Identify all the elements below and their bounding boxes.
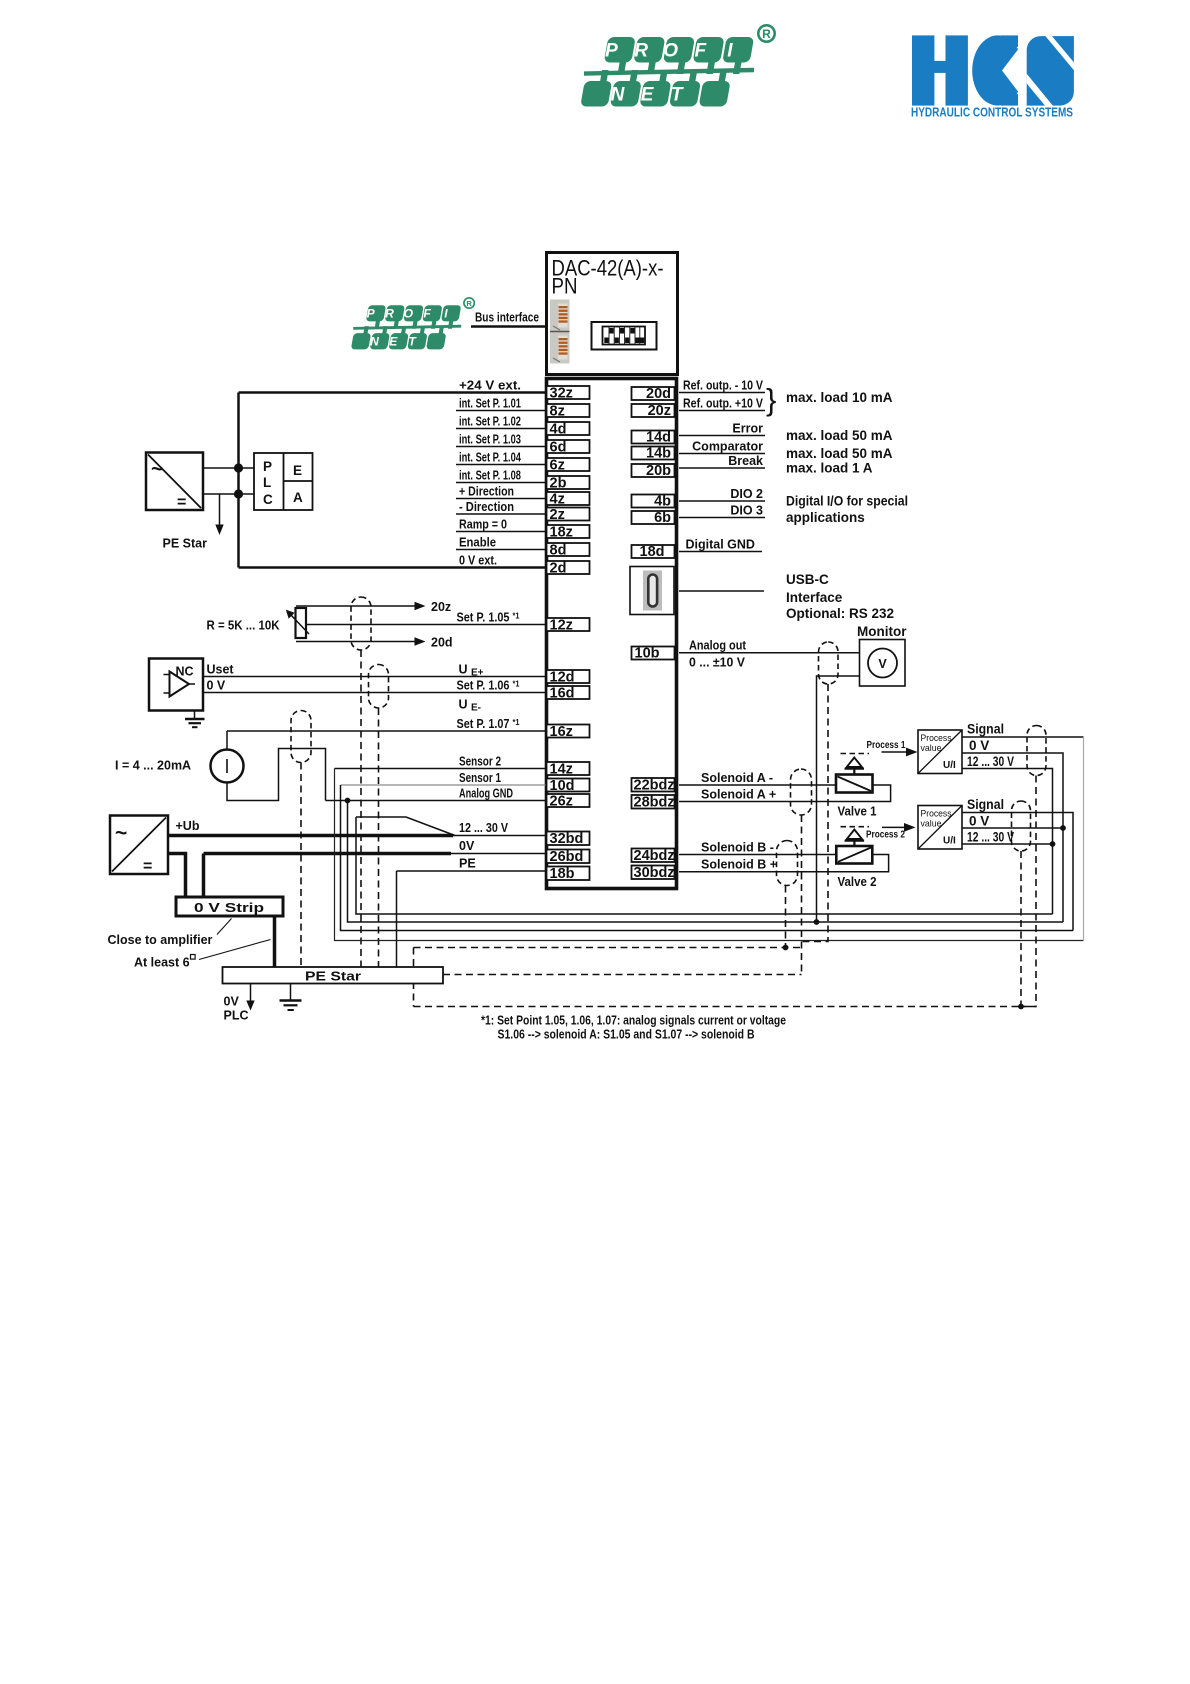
- wire signal 1 return riser (hairline): [1083, 737, 1085, 941]
- shield drain bus A: [414, 947, 802, 949]
- current source I1: [211, 750, 244, 783]
- svg-text:2b: 2b: [550, 476, 567, 492]
- pin 12z row: label Set P. 1.05: [306, 610, 590, 633]
- PE Star arrow (top): [163, 494, 224, 551]
- svg-text:16d: 16d: [550, 686, 575, 702]
- svg-text:20z: 20z: [648, 403, 671, 419]
- pin 20b row: label Break: [632, 454, 873, 479]
- wire sensor supply tap (diagonal): [356, 817, 455, 836]
- wire 0V riser to strip: [202, 854, 206, 898]
- svg-text:20z: 20z: [431, 600, 451, 614]
- svg-text:PE Star: PE Star: [163, 537, 208, 551]
- svg-text:Valve 1: Valve 1: [838, 805, 877, 819]
- wire pot top to 20z arrow: [296, 600, 451, 614]
- svg-text:Solenoid A +: Solenoid A +: [701, 787, 776, 801]
- svg-text:32bd: 32bd: [550, 831, 584, 847]
- pin 24bdz row: label Solenoid B -: [632, 840, 837, 864]
- svg-text:Solenoid B +: Solenoid B +: [701, 858, 777, 872]
- power supply AC/DC converter (top): [146, 453, 203, 512]
- cable shield (monitor): [819, 642, 839, 684]
- wire USB-C interface: [679, 590, 764, 592]
- svg-text:Enable: Enable: [459, 535, 496, 549]
- svg-text:0V: 0V: [224, 995, 240, 1009]
- wire PE riser to PE Star: [396, 871, 398, 967]
- svg-text:0 V: 0 V: [969, 813, 989, 828]
- cable shield (process 1): [1027, 726, 1046, 776]
- pin 10d row: label Sensor 1: [341, 771, 590, 794]
- pin 28bdz row: label Solenoid A +: [632, 785, 891, 811]
- pin 4b row: label DIO 2: [632, 487, 909, 510]
- svg-text:USB-C: USB-C: [786, 572, 829, 587]
- wire PSU to PLC (upper): [203, 467, 254, 469]
- svg-text:18d: 18d: [640, 544, 665, 560]
- svg-text:int. Set P. 1.03: int. Set P. 1.03: [459, 432, 521, 446]
- wire bus interface: [471, 325, 546, 328]
- junction node drain C: [1018, 1004, 1024, 1010]
- svg-text:L: L: [263, 475, 271, 490]
- USB-C port connector: [630, 567, 674, 615]
- svg-text:0 ... ±10 V: 0 ... ±10 V: [689, 656, 746, 670]
- svg-text:max. load 50 mA: max. load 50 mA: [786, 446, 893, 461]
- PROFINET logo (bus interface): [351, 298, 474, 350]
- label At least 6 square: [134, 940, 271, 970]
- svg-text:18z: 18z: [550, 525, 573, 541]
- pin 20d row: label Ref. outp. - 10 V: [632, 378, 766, 402]
- svg-text:Signal: Signal: [967, 722, 1004, 737]
- svg-text:Ref. outp. +10 V: Ref. outp. +10 V: [683, 396, 764, 410]
- pin 14b row: label Comparator: [632, 439, 893, 461]
- pin 26z row: label Analog GND: [326, 786, 590, 809]
- label Process 1 with arrow: [867, 740, 918, 756]
- svg-text:int. Set P. 1.08: int. Set P. 1.08: [459, 468, 521, 482]
- svg-text:Process 1: Process 1: [867, 740, 906, 751]
- shield drain wire (valve 2): [785, 886, 787, 948]
- svg-text:V: V: [878, 657, 887, 671]
- wire +24V ext vertical riser: [237, 393, 240, 568]
- svg-text:int. Set P. 1.02: int. Set P. 1.02: [459, 414, 521, 428]
- svg-text:value: value: [921, 819, 942, 830]
- cable shield (Uset): [369, 665, 389, 709]
- label Process 2 with arrow: [866, 823, 916, 841]
- svg-text:=: =: [177, 494, 186, 511]
- svg-text:Ramp = 0: Ramp = 0: [459, 517, 507, 531]
- wire monitor return to 0V bus: [817, 676, 860, 922]
- svg-text:*1: Set Point 1.05, 1.06, 1.07: *1: Set Point 1.05, 1.06, 1.07: analog s…: [481, 1014, 786, 1028]
- svg-text:max. load 50 mA: max. load 50 mA: [786, 428, 893, 443]
- pin 12d: [547, 670, 590, 686]
- svg-text:PE Star: PE Star: [305, 970, 361, 984]
- svg-text:Set P. 1.05 *1: Set P. 1.05 *1: [457, 610, 520, 624]
- HCS logo: [911, 35, 1074, 120]
- svg-text:Sensor 2: Sensor 2: [459, 754, 501, 768]
- svg-text:10d: 10d: [550, 778, 575, 794]
- process pickup dashes (valve 1): [841, 753, 870, 755]
- svg-text:12 ... 30 V: 12 ... 30 V: [459, 821, 509, 835]
- wire 0V 1: [962, 753, 1063, 922]
- svg-text:value: value: [921, 743, 942, 754]
- PLC box: [254, 453, 313, 510]
- 0 V Strip busbar: [176, 897, 283, 916]
- svg-text:Uset: Uset: [207, 662, 235, 676]
- cable shield (current source): [291, 711, 311, 763]
- junction node 0V2/0V1: [1060, 825, 1066, 831]
- shield drain bus B: [443, 974, 802, 976]
- svg-text:20d: 20d: [431, 636, 453, 650]
- svg-text:Ref. outp. - 10 V: Ref. outp. - 10 V: [683, 378, 764, 392]
- svg-text:+Ub: +Ub: [176, 819, 200, 833]
- svg-text:Signal: Signal: [967, 797, 1004, 812]
- svg-text:Set P. 1.07 *1: Set P. 1.07 *1: [457, 717, 520, 731]
- pin 8z row: label int. Set P. 1.01: [456, 396, 590, 419]
- wire sensor bus 4 (signal 1): [335, 769, 1084, 941]
- svg-text:- Direction: - Direction: [459, 500, 514, 514]
- svg-text:0 V ext.: 0 V ext.: [459, 553, 497, 567]
- svg-text:+ Direction: + Direction: [459, 484, 514, 498]
- svg-text:Optional: RS 232: Optional: RS 232: [786, 606, 894, 621]
- pin 4z row: label + Direction: [456, 484, 590, 507]
- pin 6d row: label int. Set P. 1.03: [456, 432, 590, 455]
- svg-text:max. load 10 mA: max. load 10 mA: [786, 390, 893, 405]
- pin 18d row: label Digital GND: [632, 537, 763, 560]
- svg-text:20b: 20b: [646, 463, 671, 479]
- svg-text:Digital I/O for special: Digital I/O for special: [786, 494, 908, 509]
- pin 6z row: label int. Set P. 1.04: [456, 450, 590, 473]
- wire 0V to 16d: [203, 692, 546, 694]
- svg-text:PN: PN: [552, 274, 578, 299]
- DIP switch S1: [592, 322, 657, 350]
- svg-text:28bdz: 28bdz: [634, 795, 675, 811]
- svg-text:S1.06 --> solenoid A: S1.05 an: S1.06 --> solenoid A: S1.05 and S1.07 --…: [498, 1028, 755, 1042]
- cable shield (potentiometer): [351, 597, 371, 650]
- svg-text:2z: 2z: [550, 507, 565, 523]
- svg-text:26bd: 26bd: [550, 849, 584, 865]
- svg-text:~: ~: [151, 458, 163, 481]
- pin 10b row: label Analog out: [632, 639, 860, 670]
- pin 16z row: label Set P. 1.07: [227, 717, 590, 740]
- svg-text:Analog out: Analog out: [689, 639, 747, 653]
- process value transducer 1: [918, 730, 962, 774]
- svg-text:int. Set P. 1.01: int. Set P. 1.01: [459, 396, 521, 410]
- pin 2b row: label int. Set P. 1.08: [456, 468, 590, 491]
- pin 32z row: label +24 V ext.: [239, 378, 590, 401]
- svg-text:Monitor: Monitor: [857, 624, 907, 639]
- wire sensor bus 2 (0V): [348, 801, 1064, 923]
- svg-text:Set P. 1.06 *1: Set P. 1.06 *1: [457, 678, 520, 692]
- svg-text:Interface: Interface: [786, 590, 843, 605]
- NC command module: [149, 659, 203, 711]
- svg-text:12 ... 30 V: 12 ... 30 V: [967, 829, 1014, 844]
- power supply AC/DC converter (bottom): [110, 816, 168, 876]
- label Close to amplifier: [108, 919, 232, 948]
- ground symbol (PE star): [280, 984, 302, 1011]
- svg-text:I = 4 ... 20mA: I = 4 ... 20mA: [115, 759, 191, 773]
- svg-text:PLC: PLC: [224, 1009, 249, 1023]
- pin 14z row: label Sensor 2: [335, 754, 590, 777]
- wire 12-30V 1: [962, 769, 1053, 915]
- shield drain wire (current source): [300, 763, 302, 968]
- potentiometer R1: [286, 608, 309, 638]
- svg-text:14b: 14b: [646, 446, 671, 462]
- svg-text:HYDRAULIC CONTROL SYSTEMS: HYDRAULIC CONTROL SYSTEMS: [911, 105, 1073, 120]
- svg-text:Solenoid A -: Solenoid A -: [701, 771, 773, 785]
- svg-text:Digital GND: Digital GND: [686, 537, 755, 551]
- cable shield (solenoid B): [777, 841, 798, 886]
- junction node 12-30V2: [1050, 841, 1056, 847]
- valve 1: [836, 758, 877, 819]
- svg-text:12z: 12z: [550, 618, 573, 634]
- svg-text:~: ~: [115, 822, 127, 845]
- svg-text:DIO 3: DIO 3: [730, 503, 763, 517]
- brace and max load 10 mA: [766, 382, 893, 417]
- junction node (lower): [234, 489, 243, 498]
- cable shield (solenoid A): [791, 769, 812, 815]
- 0V PLC arrow: [224, 984, 255, 1023]
- junction node monitor/bus2: [814, 919, 820, 925]
- svg-text:int. Set P. 1.04: int. Set P. 1.04: [459, 450, 521, 464]
- shield drain wire (Uset): [378, 708, 380, 967]
- svg-text:32z: 32z: [550, 386, 573, 402]
- pin 22bdz row: label Solenoid A -: [632, 771, 837, 794]
- wire sensor bus 1 (12-30V): [356, 817, 1053, 914]
- svg-text:}: }: [766, 382, 776, 417]
- svg-text:Error: Error: [732, 421, 763, 435]
- pin 2z row: label - Direction: [456, 500, 590, 523]
- svg-text:12 ... 30 V: 12 ... 30 V: [967, 754, 1014, 769]
- svg-text:20d: 20d: [646, 386, 671, 402]
- junction node drain A / valve2: [783, 945, 789, 951]
- svg-text:Analog GND: Analog GND: [459, 786, 513, 800]
- wire signal 2: [962, 813, 1073, 931]
- svg-text:8z: 8z: [550, 404, 565, 420]
- pin 30bdz row: label Solenoid B +: [632, 855, 889, 882]
- svg-text:R = 5K ... 10K: R = 5K ... 10K: [207, 619, 280, 633]
- wire Uset to 12d: [203, 676, 546, 678]
- label USB-C Interface Optional RS 232: [786, 572, 894, 621]
- junction node (upper): [234, 463, 243, 472]
- svg-text:0 V Strip: 0 V Strip: [194, 901, 264, 915]
- svg-text:E: E: [293, 463, 302, 478]
- svg-text:18b: 18b: [550, 866, 575, 882]
- wire sensor bus 3 (signal 2): [341, 785, 1074, 931]
- svg-text:U/I: U/I: [943, 836, 956, 847]
- svg-text:U/I: U/I: [943, 760, 956, 771]
- shield drain wire (process 1): [1021, 776, 1036, 1007]
- svg-text:A: A: [293, 490, 303, 505]
- svg-text:+24 V ext.: +24 V ext.: [459, 378, 521, 392]
- pin 6b row: label DIO 3: [632, 503, 865, 526]
- wire PSU 0V stub: [168, 854, 186, 898]
- svg-text:applications: applications: [786, 510, 865, 525]
- svg-text:12d: 12d: [550, 670, 575, 686]
- shield drain wire (monitor): [802, 684, 829, 942]
- shield drain bus C: [414, 1006, 1037, 1008]
- svg-text:6b: 6b: [654, 510, 671, 526]
- svg-text:Process 2: Process 2: [866, 830, 905, 841]
- svg-text:0 V: 0 V: [207, 678, 226, 692]
- svg-text:DIO 2: DIO 2: [730, 487, 763, 501]
- svg-text:22bdz: 22bdz: [634, 778, 675, 794]
- pin 16d row: label Set P. 1.06: [457, 678, 590, 701]
- svg-text:At least 6: At least 6: [134, 956, 190, 970]
- svg-text:Sensor 1: Sensor 1: [459, 771, 501, 785]
- svg-text:30bdz: 30bdz: [634, 865, 675, 881]
- svg-text:0V: 0V: [459, 839, 475, 853]
- process value transducer 2: [918, 806, 962, 850]
- svg-text:C: C: [263, 492, 273, 507]
- wire 0V 2: [962, 827, 1063, 829]
- pin 4d row: label int. Set P. 1.02: [456, 414, 590, 437]
- shield drain bus riser (left): [413, 948, 415, 1007]
- svg-text:Comparator: Comparator: [692, 439, 763, 453]
- wire 0V strip to PE star: [273, 916, 277, 967]
- module U1 DAC-42(A)-x-PN bus interface box: [547, 253, 678, 375]
- PROFINET logo (page header): [580, 25, 774, 106]
- shield drain wire (valve 1): [801, 815, 803, 975]
- footnote *1: [481, 1014, 786, 1042]
- svg-text:6z: 6z: [550, 458, 565, 474]
- svg-text:Bus interface: Bus interface: [475, 311, 539, 325]
- svg-text:Break: Break: [728, 454, 763, 468]
- svg-text:max. load 1 A: max. load 1 A: [786, 461, 873, 476]
- svg-text:6d: 6d: [550, 440, 567, 456]
- wire current source bottom jog to Analog GND: [227, 749, 326, 801]
- svg-text:Valve 2: Valve 2: [838, 875, 877, 889]
- wire PSU to PLC (lower): [203, 493, 254, 495]
- ground symbol (NC module): [185, 711, 205, 728]
- wire pot bottom to 20d arrow: [296, 636, 453, 650]
- svg-text:26z: 26z: [550, 794, 573, 810]
- svg-text:4z: 4z: [550, 492, 565, 508]
- svg-text:0 V: 0 V: [969, 738, 989, 753]
- bus interface RJ45 connectors (photo): [550, 300, 570, 364]
- svg-text:14z: 14z: [550, 762, 573, 778]
- svg-text:4d: 4d: [550, 422, 567, 438]
- svg-text:2d: 2d: [550, 561, 567, 577]
- PE Star busbar: [223, 967, 444, 984]
- svg-text:Close to amplifier: Close to amplifier: [108, 933, 213, 947]
- svg-text:=: =: [143, 858, 152, 875]
- pin 2d row: label 0 V ext.: [239, 553, 590, 576]
- pin 32bd row: label 12...30V with +Ub feed: [168, 821, 590, 847]
- process pickup dashes (valve 2): [841, 826, 870, 828]
- svg-text:24bdz: 24bdz: [634, 848, 675, 864]
- pin 8d row: label Enable: [456, 535, 590, 558]
- pin 20z row: label Ref. outp. +10 V: [632, 396, 766, 419]
- pin 14d row: label Error: [632, 421, 893, 445]
- pin 18b row: label PE: [397, 856, 590, 882]
- svg-text:Solenoid B -: Solenoid B -: [701, 840, 774, 854]
- wire current source top to 16z wire: [226, 731, 228, 750]
- wire signal 1: [962, 736, 1084, 738]
- shield drain wire (potentiometer): [360, 650, 362, 967]
- cable shield (process 2): [1012, 801, 1031, 851]
- pin 18z row: label Ramp = 0: [456, 517, 590, 540]
- pin 26bd row: label 0V: [204, 839, 590, 865]
- svg-text:PE: PE: [459, 856, 476, 870]
- svg-text:10b: 10b: [635, 646, 660, 662]
- svg-text:14d: 14d: [646, 430, 671, 446]
- monitor M1: [857, 624, 907, 686]
- svg-text:16z: 16z: [550, 724, 573, 740]
- shield drain wire (process 2): [1020, 851, 1022, 1007]
- svg-text:4b: 4b: [654, 494, 671, 510]
- valve 2: [836, 830, 876, 890]
- module U1 main terminal box: [547, 379, 677, 889]
- wire 12-30V 2: [962, 843, 1053, 845]
- svg-text:P: P: [263, 459, 272, 474]
- svg-text:8d: 8d: [550, 543, 567, 559]
